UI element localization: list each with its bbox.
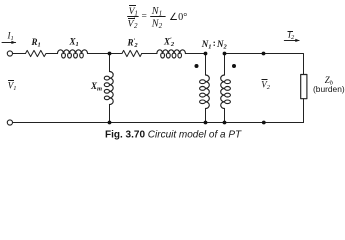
svg-text:N1: N1 [151,6,162,18]
svg-text:X′2: X′2 [163,37,175,49]
svg-text:I1: I1 [7,31,14,43]
svg-text:N2: N2 [151,19,163,31]
svg-text:R1: R1 [31,37,41,49]
svg-text:R′2: R′2 [127,38,139,50]
svg-text:V′2: V′2 [128,16,138,30]
svg-text:∠0°: ∠0° [169,12,187,23]
svg-text:N1:N2: N1:N2 [201,38,228,51]
svg-text:Xm: Xm [90,81,102,93]
svg-text:X1: X1 [69,37,79,49]
svg-text:=: = [142,12,147,22]
svg-text:V1: V1 [8,81,17,93]
svg-text:V2: V2 [261,80,271,92]
svg-text:Fig. 3.70 Circuit model of a P: Fig. 3.70 Circuit model of a PT [105,130,242,141]
svg-text:(burden): (burden) [313,84,345,94]
